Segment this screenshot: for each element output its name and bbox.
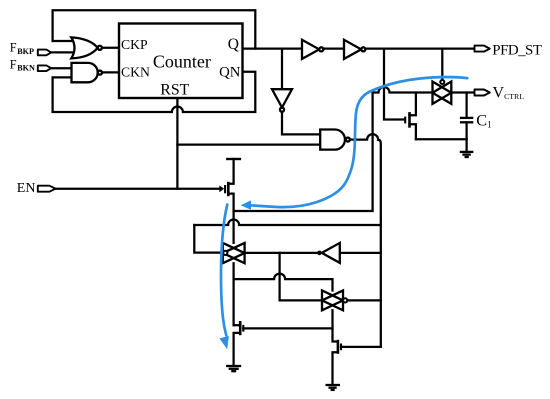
wire capacitor C1 bottom lead xyxy=(465,123,467,139)
wire NMOS M3 source to ground xyxy=(234,333,241,366)
wire node A vertical from VCTRL line to drain row xyxy=(234,93,373,212)
port pin PFD_ST xyxy=(475,46,490,52)
wire node B vertical xyxy=(378,140,381,347)
PMOS M2 channel bar xyxy=(227,182,230,196)
svg-text:RST: RST xyxy=(160,82,189,99)
wire VCTRL line right to pin xyxy=(451,91,474,93)
svg-text:Counter: Counter xyxy=(153,52,211,72)
wire between inverters xyxy=(323,47,344,49)
PMOS M2 gate bar xyxy=(224,185,226,193)
ground under M3 xyxy=(226,366,241,371)
wire NMOS M3 drain lead xyxy=(234,324,241,326)
NMOS M1 channel bar xyxy=(408,112,411,128)
wire NMOS M1 drain xyxy=(410,93,416,116)
wire NMOS M3 gate row xyxy=(243,327,332,329)
port pin F_BKP xyxy=(38,50,51,56)
wire VDD stem to PMOS M2 xyxy=(228,159,233,184)
wire RST branch to NAND input 2 xyxy=(177,143,320,145)
NAND gate U6 xyxy=(320,130,350,150)
svg-text:BKN: BKN xyxy=(17,64,35,73)
wire TG1 output to inverter U7 xyxy=(245,252,318,254)
inverter U7 left pointing xyxy=(322,243,340,263)
NMOS M1 gate bar xyxy=(404,117,406,124)
wire TG1 row down to TG2 input xyxy=(280,253,322,301)
transmission gate TG2 xyxy=(322,291,343,311)
VDD supply bar xyxy=(226,158,241,160)
wire ground stem under C1 xyxy=(465,139,467,152)
junction dot at U7 output xyxy=(317,251,322,256)
port pin F_BKN xyxy=(38,65,51,71)
wire RST vertical down to EN line xyxy=(176,98,178,189)
svg-text:PFD_ST: PFD_ST xyxy=(492,42,542,58)
bubble TG3 control xyxy=(440,80,444,84)
ground under M4 xyxy=(326,385,341,390)
wire falling inverter to NAND input 1 xyxy=(282,112,320,135)
inverter U4b xyxy=(344,40,365,59)
wire feedback row with hop over drain xyxy=(194,220,380,226)
wire TG1 bottom row to TG2 control with hop xyxy=(234,274,333,291)
wire capacitor C1 top lead xyxy=(465,93,467,118)
wire bottom rail to capacitor foot xyxy=(416,138,467,140)
svg-text:F: F xyxy=(10,40,17,54)
wire TG2 bottom to NMOS M4 drain xyxy=(333,310,338,341)
wire AND output to CKN xyxy=(102,71,119,73)
inverter U5 falling xyxy=(272,89,292,112)
counter U3 box xyxy=(119,24,243,99)
bubble TG2 output xyxy=(343,298,347,302)
wire inverter U7 input from node B xyxy=(340,252,381,254)
wire loop corner to NOR input 1 xyxy=(53,40,78,42)
svg-text:QN: QN xyxy=(219,64,241,80)
svg-text:BKP: BKP xyxy=(17,47,34,56)
NMOS M3 channel bar xyxy=(239,321,242,335)
ground under C1 xyxy=(460,152,474,157)
wire feedback left leg to TG1 input xyxy=(194,225,222,253)
wire Q to inverter chain xyxy=(243,47,303,49)
wire NMOS M4 gate to node B xyxy=(341,346,381,348)
AND-NAND gate U2 xyxy=(72,63,102,82)
arrowhead EN into M2 gate xyxy=(219,185,224,192)
wire PFD rail down to TG3 control xyxy=(441,49,443,80)
svg-text:CKP: CKP xyxy=(121,37,148,52)
NMOS M4 gate bar xyxy=(340,344,342,351)
wire VCTRL line left with hop xyxy=(373,87,433,93)
svg-text:F: F xyxy=(10,57,17,71)
wire top feedback loop from Q to NOR input xyxy=(53,10,256,48)
wire NAND output to node B with hop xyxy=(350,134,378,140)
wire TG1 bottom vertical xyxy=(232,263,234,325)
transmission gate TG1 xyxy=(223,243,245,263)
transmission gate TG3 xyxy=(433,82,452,104)
NMOS M4 channel bar xyxy=(337,340,340,354)
svg-text:CKN: CKN xyxy=(121,64,150,79)
wire bottom feedback loop from QN to AND input xyxy=(53,72,256,112)
wire PFD rail down to NMOS M1 gate xyxy=(384,49,404,120)
capacitor C1 plates xyxy=(460,118,473,122)
port pin EN xyxy=(38,186,56,192)
blue arrow 2 from drain node down to ground xyxy=(221,205,227,336)
NMOS M3 gate bar xyxy=(242,325,244,332)
wire F_BKN pin to AND input xyxy=(51,67,73,69)
wire PMOS M2 drain down to TG1 xyxy=(228,194,233,243)
blue arrow 1 from VCTRL region to drain node xyxy=(251,77,468,207)
port pin V_CTRL xyxy=(475,90,490,96)
wire Q rail down to falling inverter xyxy=(281,49,283,90)
svg-text:Q: Q xyxy=(228,36,239,53)
wire NMOS M4 source to ground xyxy=(333,352,338,385)
bubble TG1 input xyxy=(223,251,227,255)
wire F_BKP pin to NOR input xyxy=(51,51,76,53)
inverter U4a xyxy=(302,40,323,59)
svg-text:EN: EN xyxy=(17,181,36,196)
wire NMOS M1 source xyxy=(410,124,416,139)
wire EN line xyxy=(56,188,220,190)
wire TG2 output to node B xyxy=(347,299,380,301)
NOR gate U1 xyxy=(71,37,102,58)
wire NOR output to CKP xyxy=(102,47,119,49)
wire inverter 2 to PFD_ST pin xyxy=(365,47,474,49)
